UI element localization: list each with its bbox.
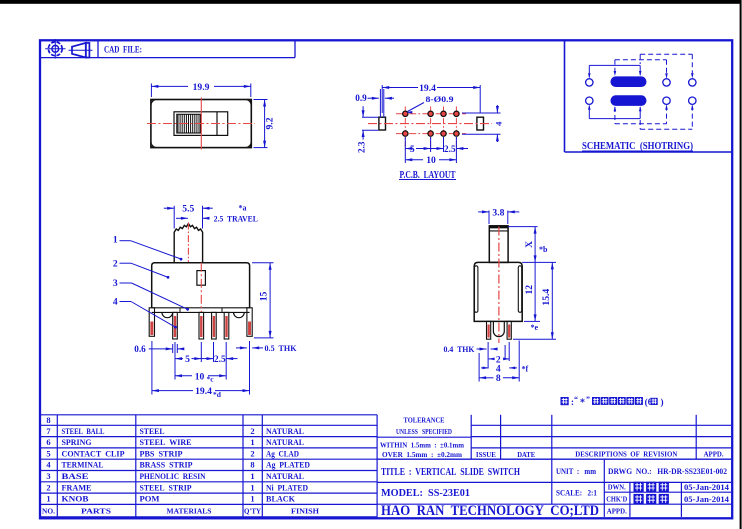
svg-text:BRASS STRIP: BRASS STRIP	[140, 461, 193, 470]
svg-text:POM: POM	[140, 495, 160, 504]
svg-text:*a: *a	[239, 204, 247, 213]
side dim 2 line	[489, 358, 494, 360]
drawn-by name (chinese)	[634, 482, 644, 492]
schematic row2 dashed link A	[615, 123, 667, 125]
side dim 15.4 line	[551, 262, 553, 339]
svg-text:NO.: NO.	[42, 506, 55, 515]
front base notch right	[234, 312, 245, 317]
svg-text:TITLE : VERTICAL SLIDE SWI: TITLE : VERTICAL SLIDE SWITCH	[381, 467, 520, 478]
svg-text:*f: *f	[522, 364, 529, 373]
front dim 2.5 line	[201, 358, 213, 360]
pcb holes 8x	[403, 111, 408, 116]
svg-text:PARTS: PARTS	[81, 506, 111, 515]
schematic terminals	[586, 79, 593, 86]
schematic row1 dashed link B	[640, 53, 692, 55]
front dim 2.5travel line	[176, 217, 188, 219]
projection symbol cone	[69, 43, 93, 58]
dim 9.2 line	[264, 100, 266, 148]
side pin row1	[487, 321, 491, 339]
front terminal pin 4	[224, 312, 229, 339]
side body	[474, 262, 522, 321]
svg-text:STEEL: STEEL	[140, 427, 165, 436]
svg-text:5: 5	[46, 448, 50, 458]
svg-text:19.4: 19.4	[195, 386, 212, 397]
svg-text:3: 3	[46, 471, 50, 481]
svg-text:): )	[660, 397, 663, 407]
svg-text:Q'TY: Q'TY	[244, 506, 262, 515]
svg-text:2: 2	[113, 258, 118, 269]
svg-text:STEEL STRIP: STEEL STRIP	[140, 483, 192, 492]
cad-file header divider	[97, 41, 99, 58]
top view centerline vertical	[200, 98, 202, 150]
side dim X line	[534, 227, 536, 263]
side dim 0.4thk line	[477, 348, 487, 350]
svg-text:HAO RAN TECHNOLOGY CO;LTD: HAO RAN TECHNOLOGY CO;LTD	[381, 503, 599, 519]
svg-text:5: 5	[185, 354, 190, 365]
svg-text:0.5 THK: 0.5 THK	[265, 343, 297, 353]
svg-text:6: 6	[46, 437, 50, 447]
front body	[152, 263, 250, 308]
top view corner fillet TL	[152, 100, 157, 105]
svg-text:05-Jan-2014: 05-Jan-2014	[684, 483, 729, 492]
top view slider divider	[216, 112, 218, 136]
svg-text:MODEL: SS-23E01: MODEL: SS-23E01	[381, 488, 470, 499]
svg-text:STEEL WIRE: STEEL WIRE	[140, 438, 192, 447]
projection symbol target	[45, 39, 65, 59]
svg-text:DRWG NO.: HR-DR-SS23E01-002: DRWG NO.: HR-DR-SS23E01-002	[608, 467, 727, 476]
svg-text:1: 1	[46, 494, 50, 504]
svg-text:SPRING: SPRING	[62, 438, 92, 447]
schematic shorting bar row1	[611, 76, 647, 87]
pcb dim 0.9 ext	[379, 89, 381, 118]
svg-text:DWN.: DWN.	[608, 483, 626, 492]
schematic shorting bar row2	[611, 95, 647, 106]
parts table grid	[40, 414, 377, 416]
svg-text:APPD.: APPD.	[704, 450, 724, 459]
svg-text:2.5 TRAVEL: 2.5 TRAVEL	[214, 213, 258, 223]
svg-text:05-Jan-2014: 05-Jan-2014	[684, 495, 729, 504]
front body centerline	[200, 263, 202, 312]
svg-text:3: 3	[113, 278, 118, 289]
pcb row centerline bottom	[396, 133, 466, 135]
pcb dim 2.3 ext	[362, 116, 378, 118]
svg-text:1: 1	[113, 235, 118, 246]
cad-file header box right line	[294, 41, 296, 58]
svg-text:10: 10	[426, 155, 436, 166]
dim 9.2 ext lines	[254, 99, 268, 101]
top view corner fillet BR	[246, 142, 251, 147]
svg-text:2.5: 2.5	[444, 144, 456, 154]
svg-text:8: 8	[496, 373, 501, 384]
svg-text:12: 12	[524, 285, 535, 295]
svg-text:BASE: BASE	[62, 472, 89, 481]
svg-text:UNLESS SPECIFIED: UNLESS SPECIFIED	[396, 427, 452, 436]
svg-text:*c: *c	[206, 375, 214, 384]
front dim 15 ext	[252, 262, 274, 264]
side dim 12 arrowtop	[534, 262, 536, 264]
checked-by name (chinese)	[634, 494, 644, 504]
side ext knobtop	[508, 226, 537, 228]
svg-text:2: 2	[46, 482, 50, 492]
pcb dim 10 line	[405, 159, 423, 161]
svg-text:OVER 1.5mm : ±0.2mm: OVER 1.5mm : ±0.2mm	[382, 450, 463, 459]
side ext bodytop	[522, 261, 556, 263]
svg-text:X: X	[524, 241, 535, 248]
pcb column centerlines	[404, 107, 406, 151]
svg-text:10: 10	[195, 371, 205, 382]
side lower ext lines	[478, 353, 480, 382]
side dim 3.8 line	[478, 211, 489, 213]
svg-text:19.9: 19.9	[193, 82, 210, 93]
side ext pinbottom	[513, 338, 556, 340]
pcb layout label	[399, 170, 456, 181]
svg-text:NATURAL: NATURAL	[266, 438, 304, 447]
side center post	[493, 321, 504, 336]
svg-text:CHK'D: CHK'D	[606, 495, 627, 504]
front dim 0.6 line	[149, 348, 173, 350]
svg-text:0.6: 0.6	[134, 344, 146, 354]
svg-text:0.9: 0.9	[355, 93, 367, 103]
svg-text:2: 2	[250, 426, 254, 436]
top view corner fillet BL	[152, 142, 157, 147]
schematic box left edge	[564, 41, 566, 152]
svg-text:FINISH: FINISH	[291, 506, 319, 515]
svg-text:15: 15	[259, 292, 270, 302]
svg-text:*e: *e	[531, 323, 539, 332]
side dim 12 line	[534, 262, 536, 321]
front dim 15 line	[269, 263, 271, 338]
pcb left pad	[379, 117, 386, 130]
svg-text:4: 4	[494, 121, 504, 126]
dim 19.9 line	[151, 85, 188, 87]
top view corner fillet TR	[246, 100, 251, 105]
top view slider window	[174, 112, 228, 136]
side dim 8 line	[479, 377, 493, 379]
pcb right pad	[477, 117, 484, 130]
front dim 5.5 ext	[173, 206, 175, 229]
front base notch left	[162, 312, 173, 317]
svg-text:4: 4	[113, 297, 118, 308]
svg-text:“: “	[574, 395, 578, 404]
schematic row2 solid link	[589, 118, 640, 120]
page right black edge	[740, 0, 742, 529]
svg-text:NATURAL: NATURAL	[266, 427, 304, 436]
svg-text:2: 2	[250, 448, 254, 458]
svg-text:SCALE: 2:1: SCALE: 2:1	[556, 489, 597, 498]
side frame ear right	[518, 266, 521, 313]
svg-text:FRAME: FRAME	[62, 483, 92, 492]
side knob	[489, 226, 508, 263]
front ball window	[197, 271, 206, 286]
svg-text:MATERIALS: MATERIALS	[167, 506, 212, 515]
svg-text:TERMINAL: TERMINAL	[62, 461, 104, 470]
pcb dim 2.5 line	[431, 148, 444, 150]
front left mounting leg	[149, 308, 154, 337]
svg-text:STEEL BALL: STEEL BALL	[62, 427, 105, 436]
schematic box bottom edge	[565, 151, 732, 153]
front right mounting leg	[247, 308, 252, 337]
front base platform ticks	[179, 308, 181, 313]
svg-text:8: 8	[250, 460, 254, 470]
svg-text:1: 1	[250, 482, 254, 492]
svg-text:”: ”	[586, 395, 590, 404]
pcb label 8-dia0.9 leader	[408, 103, 425, 112]
svg-text:1: 1	[250, 494, 254, 504]
svg-text:WITHIN 1.5mm : ±0.1mm: WITHIN 1.5mm : ±0.1mm	[380, 440, 465, 449]
pcb dim 4 ext	[462, 112, 501, 114]
svg-text:8-Ø0.9: 8-Ø0.9	[426, 94, 454, 104]
svg-text:ISSUE: ISSUE	[476, 450, 496, 459]
pcb dim 2.3 line	[362, 106, 364, 117]
svg-text:3.8: 3.8	[492, 207, 504, 218]
svg-text:BLACK: BLACK	[266, 495, 296, 504]
svg-text:NATURAL: NATURAL	[266, 472, 304, 481]
front dim 5 line	[175, 358, 183, 360]
cad-file header box bottom line	[41, 57, 295, 59]
svg-text:0.4 THK: 0.4 THK	[444, 344, 475, 354]
svg-text:KNOB: KNOB	[62, 495, 90, 504]
svg-text:*b: *b	[539, 245, 548, 254]
svg-text:UNIT : mm: UNIT : mm	[556, 467, 596, 476]
svg-text:1: 1	[250, 437, 254, 447]
svg-text:*: *	[580, 398, 585, 409]
pcb dim 19.4 line	[382, 87, 418, 89]
schematic label	[582, 141, 693, 152]
front knob centerline	[187, 223, 189, 263]
pcb dim 4 line	[496, 105, 498, 113]
svg-text:2.5: 2.5	[214, 354, 226, 364]
svg-text:2.3: 2.3	[356, 141, 366, 153]
svg-text:Ag PLATED: Ag PLATED	[266, 461, 310, 470]
svg-text:CONTACT CLIP: CONTACT CLIP	[62, 449, 125, 458]
top view body outline	[151, 100, 251, 148]
side pin row2	[507, 321, 511, 339]
front base flange line	[152, 311, 250, 313]
front terminal pin 1	[173, 312, 178, 339]
svg-text:DESCRIPTIONS OF REVISION: DESCRIPTIONS OF REVISION	[575, 450, 678, 459]
svg-text:15.4: 15.4	[541, 289, 552, 306]
front dim 19.4 line	[152, 390, 193, 392]
front dim 10 line	[175, 375, 192, 377]
svg-text:*d: *d	[213, 390, 222, 399]
schematic row2 dashed link B	[640, 128, 692, 130]
note key dimensions (chinese)	[561, 397, 569, 405]
top view knob hatch	[177, 114, 201, 133]
svg-text:CAD FILE:: CAD FILE:	[104, 46, 142, 56]
front knob	[174, 224, 202, 263]
svg-text:8: 8	[46, 415, 50, 425]
pcb dim 0.9 line	[368, 97, 379, 99]
top view centerline horizontal	[147, 123, 255, 125]
front terminal pin 2	[199, 312, 204, 339]
schematic row1 solid link	[589, 64, 640, 66]
svg-text:PHENOLIC RESIN: PHENOLIC RESIN	[140, 472, 206, 481]
svg-text:Ni PLATED: Ni PLATED	[266, 483, 308, 492]
side centerline	[498, 227, 500, 344]
side frame ear left	[475, 266, 478, 313]
side dim 3.8 ext	[488, 211, 490, 225]
svg-text:9.2: 9.2	[265, 117, 276, 129]
svg-text:1: 1	[250, 471, 254, 481]
front body bottom line	[152, 307, 250, 309]
svg-text:Ag CLAD: Ag CLAD	[266, 449, 299, 458]
front terminal pin 3	[212, 312, 217, 339]
svg-text:DATE: DATE	[517, 450, 535, 459]
svg-text:19.4: 19.4	[419, 83, 436, 94]
side dim 4 line	[481, 367, 489, 369]
pcb dim 19.4 ext	[381, 85, 383, 113]
svg-text:TOLERANCE: TOLERANCE	[404, 415, 445, 424]
schematic row1 dashed link A	[615, 59, 667, 61]
pcb main centerline	[368, 123, 492, 125]
front dim 5.5 line	[164, 207, 174, 209]
svg-text:5.5: 5.5	[182, 203, 194, 214]
side ext bodybottom	[524, 320, 540, 322]
front lower ext lines	[151, 341, 153, 395]
pcb dim 5 line	[405, 148, 409, 150]
pcb lower ext lines	[404, 137, 406, 163]
svg-text:APPD.: APPD.	[607, 507, 627, 516]
svg-text:PBS STRIP: PBS STRIP	[140, 449, 183, 458]
title block grid	[377, 436, 471, 438]
svg-text:5: 5	[410, 144, 415, 154]
front dim 0.5thk line	[236, 347, 247, 349]
dim 19.9 ext lines	[150, 84, 152, 98]
page top black bar	[0, 0, 740, 4]
pcb row centerline top	[396, 113, 466, 115]
